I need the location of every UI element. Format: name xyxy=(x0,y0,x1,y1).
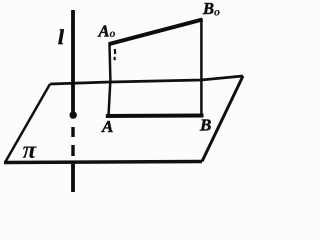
svg-text:o: o xyxy=(110,26,116,40)
line l: lower solid segment xyxy=(71,161,75,193)
segment B-B0 xyxy=(200,19,203,116)
svg-text:o: o xyxy=(214,5,220,19)
svg-text:l: l xyxy=(58,25,64,49)
plane pi: left edge xyxy=(5,84,50,163)
svg-text:A: A xyxy=(101,117,113,136)
plane pi: bottom edge xyxy=(4,162,202,163)
svg-text:A: A xyxy=(98,22,110,41)
plane pi: right edge xyxy=(202,76,243,162)
line l: upper solid segment xyxy=(71,10,75,119)
plane pi: top edge xyxy=(50,76,243,84)
intersection dot on line l xyxy=(70,111,77,118)
svg-text:B: B xyxy=(202,0,214,18)
hidden dashes below A0 xyxy=(113,49,116,60)
svg-text:B: B xyxy=(199,116,211,135)
segment A-B xyxy=(106,114,204,119)
svg-text:π: π xyxy=(23,137,38,164)
segment A-A0 xyxy=(109,44,111,116)
segment A0-B0 xyxy=(109,19,203,44)
line l: dashed hidden segment xyxy=(71,127,74,156)
